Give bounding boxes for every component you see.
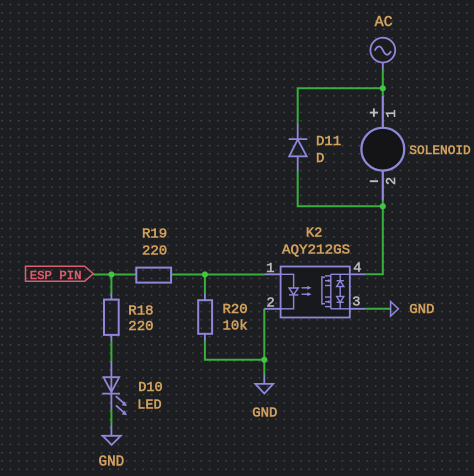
solenoid pin 1 (top) — [382, 96, 384, 128]
D10 pin bottom — [110, 394, 112, 410]
wire solenoid bottom pin to junction — [382, 201, 384, 207]
D10 emission arrow 1 — [116, 396, 124, 403]
shared gate line — [321, 276, 323, 305]
bottom MOSFET channel bars — [325, 296, 331, 298]
wire junction2 down to R20 — [204, 275, 206, 294]
svg-text:AC: AC — [375, 14, 393, 31]
svg-text:SOLENOID: SOLENOID — [409, 143, 471, 158]
svg-text:LED: LED — [137, 399, 161, 414]
D10 line through triangle — [110, 377, 112, 393]
svg-text:220: 220 — [142, 243, 167, 259]
svg-text:D: D — [316, 151, 324, 167]
D10 pin top — [110, 361, 112, 377]
svg-text:1: 1 — [266, 261, 274, 277]
wire top junction to D11 top corner — [298, 88, 383, 124]
wire R20 bottom to junction under K2 — [205, 341, 264, 360]
wire solenoid top pin to junction — [382, 88, 384, 96]
top MOSFET source arrow — [326, 279, 329, 282]
svg-text:D11: D11 — [316, 134, 341, 150]
K2 pin 4 — [350, 273, 366, 275]
junction R19 / R20 — [202, 271, 208, 277]
junction ESP PIN / R18 — [108, 271, 114, 277]
K2 pin 1 — [264, 273, 280, 275]
svg-text:R18: R18 — [128, 303, 153, 319]
K2 internal LED emission arrows — [302, 286, 312, 296]
svg-text:GND: GND — [252, 405, 277, 421]
svg-text:D10: D10 — [138, 381, 162, 396]
bottom MOSFET source arrow — [326, 300, 329, 303]
K2 body — [281, 267, 350, 318]
wire bottom junction down to K2 pin4 — [365, 206, 383, 274]
wire R19 to K2 pin1 — [171, 274, 264, 276]
K2 internal MOSFET pair — [322, 274, 350, 309]
diode D11 cathode bar — [289, 138, 308, 140]
K2 pin 2 — [264, 308, 280, 310]
K2 internal LED — [281, 274, 299, 309]
diode D11 pin bottom — [297, 156, 299, 172]
internal bottom rail — [331, 308, 350, 310]
solenoid - polarity mark — [370, 180, 378, 182]
D10 triangle — [104, 377, 120, 392]
wire K2 pin3 to GND label — [365, 308, 390, 310]
svg-text:R20: R20 — [223, 302, 248, 318]
AC source pin — [382, 63, 384, 71]
AC source symbol body — [370, 38, 395, 70]
wire D10 cathode to GND — [110, 410, 112, 425]
R18 pin stubs — [110, 293, 112, 342]
wire ESP PIN to R19 — [93, 274, 136, 276]
body diode top (pointing up) — [339, 274, 341, 280]
D10 cathode bar — [102, 393, 120, 395]
svg-text:2: 2 — [266, 295, 274, 311]
top MOSFET gate plate — [322, 276, 325, 278]
solenoid + polarity mark — [370, 108, 378, 116]
junction R20 / K2 pin2 GND — [261, 357, 267, 363]
junction bottom (solenoid/D11/K2 node) — [380, 203, 386, 209]
svg-text:220: 220 — [128, 319, 153, 335]
svg-text:AQY212GS: AQY212GS — [282, 242, 350, 258]
svg-text:1: 1 — [385, 110, 400, 118]
body diode bottom (pointing down) — [337, 296, 344, 302]
svg-text:K2: K2 — [306, 227, 323, 242]
diode D11 triangle — [289, 140, 307, 157]
bottom MOSFET gate plate — [322, 303, 325, 305]
wire junction1 down to R18 — [110, 275, 112, 294]
internal top rail — [331, 273, 350, 275]
svg-text:R19: R19 — [142, 226, 167, 242]
top MOSFET channel bars — [325, 275, 331, 277]
svg-text:2: 2 — [385, 177, 400, 185]
K2 pin 3 — [350, 308, 366, 310]
diode D11 pin top — [297, 124, 299, 139]
junction top (AC node) — [380, 85, 386, 91]
D10 emission arrow 2 — [116, 405, 124, 412]
svg-text:4: 4 — [353, 261, 361, 277]
wire R18 bottom to D10 LED — [110, 342, 112, 362]
wire D11 bottom to bottom junction — [298, 172, 383, 206]
svg-text:GND: GND — [409, 302, 434, 318]
svg-text:ESP PIN: ESP PIN — [30, 269, 82, 283]
wire K2 pin2 down to GND — [263, 309, 265, 375]
svg-text:GND: GND — [99, 454, 125, 470]
solenoid pin 2 (bottom) — [382, 171, 384, 201]
svg-text:3: 3 — [352, 295, 360, 311]
svg-text:10k: 10k — [223, 318, 248, 334]
R20 pin stubs — [204, 294, 206, 341]
solenoid body circle — [361, 128, 404, 171]
wire AC source to top junction — [382, 70, 384, 88]
drain/source vertical — [330, 274, 332, 309]
